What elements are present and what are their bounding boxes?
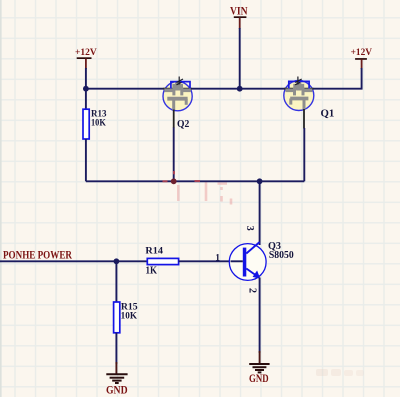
power port +12V right	[351, 48, 373, 69]
watermark	[178, 182, 231, 205]
svg-text:Q2: Q2	[177, 118, 190, 130]
wire emitter down	[259, 278, 261, 354]
junction Q2 gate bus	[171, 178, 177, 184]
svg-text:PONHE POWER: PONHE POWER	[3, 250, 73, 262]
resistor R15	[114, 261, 139, 364]
junction left rail	[83, 86, 89, 92]
svg-text:VIN: VIN	[230, 5, 248, 17]
wire top rail left	[86, 88, 166, 90]
junction VIN rail	[237, 86, 243, 92]
svg-text:+12V: +12V	[351, 48, 373, 58]
ground GND2	[249, 351, 270, 385]
svg-text:10K: 10K	[91, 118, 106, 128]
wire Q2 gate down	[173, 110, 175, 129]
svg-text:+12V: +12V	[75, 48, 97, 58]
power port +12V left	[75, 48, 97, 69]
svg-text:1K: 1K	[146, 266, 158, 277]
wire +12V left down	[85, 68, 87, 89]
junction collector bus	[257, 178, 263, 184]
wire top rail middle	[190, 88, 288, 90]
wire gate bus	[86, 180, 304, 182]
sheet border	[0, 0, 2, 397]
resistor R14	[145, 246, 230, 277]
transistor Q2 (P-MOSFET)	[163, 77, 192, 131]
net VIN power port	[230, 5, 248, 29]
wire VIN down	[239, 28, 241, 89]
svg-text:3: 3	[244, 226, 255, 231]
wire Q1 gate down	[303, 109, 305, 129]
resistor R13	[83, 89, 107, 182]
wire +12V right down	[310, 68, 362, 89]
svg-text:Q1: Q1	[321, 107, 335, 119]
svg-text:1: 1	[215, 253, 220, 263]
ground GND1	[106, 362, 128, 396]
junction base divider	[114, 258, 120, 264]
transistor Q3 NPN S8050	[215, 226, 294, 293]
svg-text:GND: GND	[106, 382, 128, 396]
watermark red dashes on bus	[163, 171, 201, 181]
svg-text:S8050: S8050	[269, 249, 294, 261]
watermark2	[316, 369, 364, 376]
svg-text:2: 2	[246, 288, 257, 293]
wire PONHE POWER	[0, 260, 147, 262]
svg-text:GND: GND	[249, 373, 269, 385]
wire collector drop	[259, 181, 261, 245]
svg-text:10K: 10K	[121, 311, 137, 321]
transistor Q1 (P-MOSFET)	[284, 77, 335, 120]
svg-text:R14: R14	[145, 246, 163, 256]
